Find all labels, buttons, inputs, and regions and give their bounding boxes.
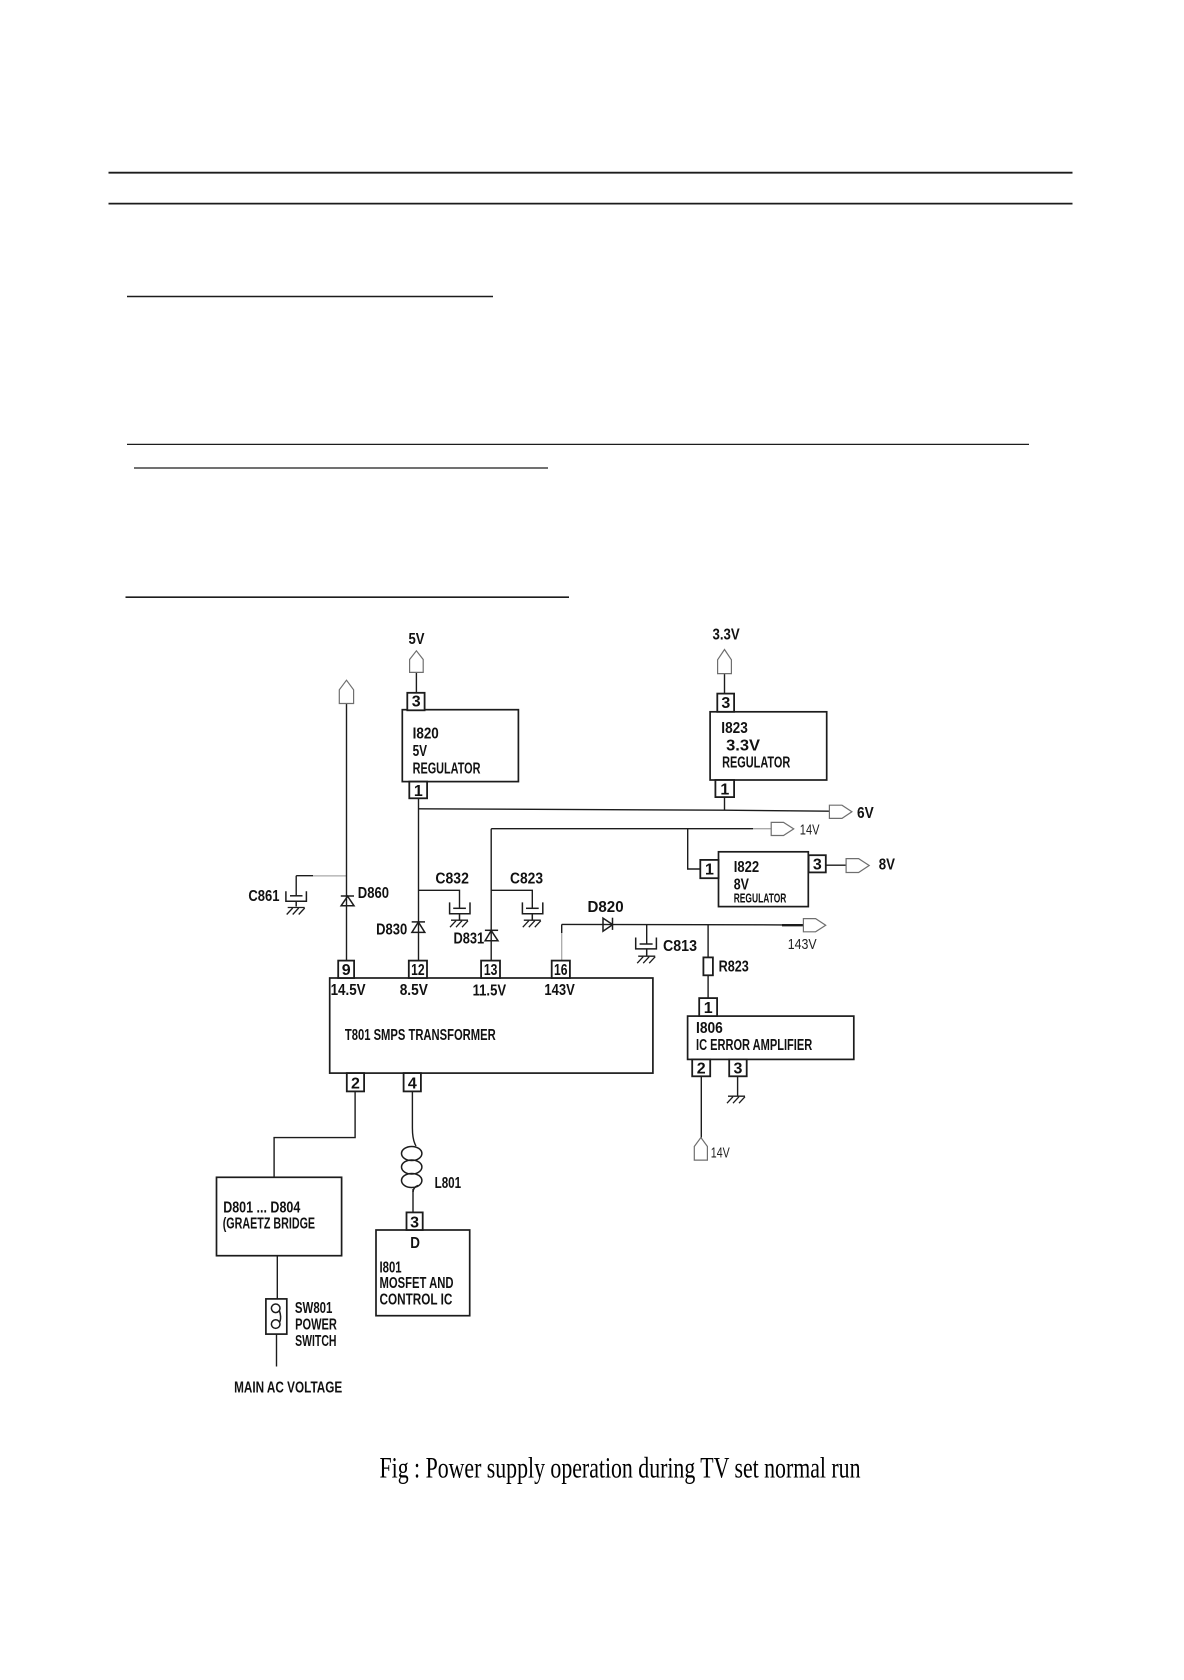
svg-text:I820: I820 [413,726,439,743]
svg-text:REGULATOR: REGULATOR [722,755,790,772]
svg-text:1: 1 [704,1000,713,1017]
svg-text:1: 1 [720,782,729,799]
svg-text:C823: C823 [510,871,543,888]
svg-text:8.5V: 8.5V [400,982,428,999]
svg-text:T801 SMPS TRANSFORMER: T801 SMPS TRANSFORMER [345,1027,496,1044]
svg-text:REGULATOR: REGULATOR [413,761,481,778]
svg-text:C813: C813 [663,938,697,955]
svg-text:3.3V: 3.3V [726,738,760,755]
svg-text:SW801: SW801 [295,1300,333,1317]
svg-text:CONTROL IC: CONTROL IC [380,1291,453,1308]
svg-text:L801: L801 [435,1175,462,1192]
svg-text:14V: 14V [800,821,820,838]
svg-text:3: 3 [813,857,822,874]
svg-text:MAIN AC VOLTAGE: MAIN AC VOLTAGE [234,1379,342,1396]
svg-text:6V: 6V [857,805,874,822]
svg-text:2: 2 [697,1061,706,1078]
svg-text:14.5V: 14.5V [331,982,366,999]
svg-text:MOSFET AND: MOSFET AND [380,1275,454,1292]
svg-text:14V: 14V [711,1145,730,1162]
svg-text:13: 13 [484,962,498,979]
svg-text:1: 1 [705,862,714,879]
svg-text:2: 2 [351,1076,360,1093]
svg-text:SWITCH: SWITCH [295,1333,336,1350]
svg-text:I823: I823 [721,720,748,737]
svg-text:4: 4 [408,1076,417,1093]
svg-text:3.3V: 3.3V [713,626,740,643]
svg-text:C861: C861 [248,888,279,905]
svg-text:1: 1 [414,783,423,800]
svg-text:I806: I806 [696,1020,723,1037]
svg-text:D831: D831 [454,931,485,948]
svg-text:3: 3 [410,1215,419,1232]
svg-text:143V: 143V [544,982,575,999]
svg-text:POWER: POWER [295,1316,337,1333]
svg-text:3: 3 [734,1061,743,1078]
svg-text:R823: R823 [719,959,749,976]
svg-text:5V: 5V [409,631,425,648]
svg-text:D801 ... D804: D801 ... D804 [223,1200,300,1217]
svg-text:16: 16 [554,962,568,979]
svg-text:3: 3 [412,694,421,711]
svg-text:3: 3 [721,695,730,712]
svg-text:C832: C832 [435,871,469,888]
svg-text:12: 12 [411,962,425,979]
svg-text:(GRAETZ BRIDGE: (GRAETZ BRIDGE [223,1215,316,1232]
svg-text:I822: I822 [734,859,759,876]
svg-text:D860: D860 [358,885,389,902]
svg-text:5V: 5V [413,743,428,760]
svg-text:IC ERROR AMPLIFIER: IC ERROR AMPLIFIER [696,1037,813,1054]
svg-text:9: 9 [342,962,351,979]
svg-text:D820: D820 [588,899,624,916]
svg-text:Fig : Power supply operation d: Fig : Power supply operation during TV s… [380,1451,861,1484]
svg-text:REGULATOR: REGULATOR [734,892,787,906]
svg-text:D: D [410,1235,420,1252]
svg-text:143V: 143V [788,936,817,953]
svg-text:8V: 8V [879,857,895,874]
svg-text:D830: D830 [376,922,407,939]
svg-text:11.5V: 11.5V [473,982,507,999]
svg-text:I801: I801 [380,1260,402,1277]
